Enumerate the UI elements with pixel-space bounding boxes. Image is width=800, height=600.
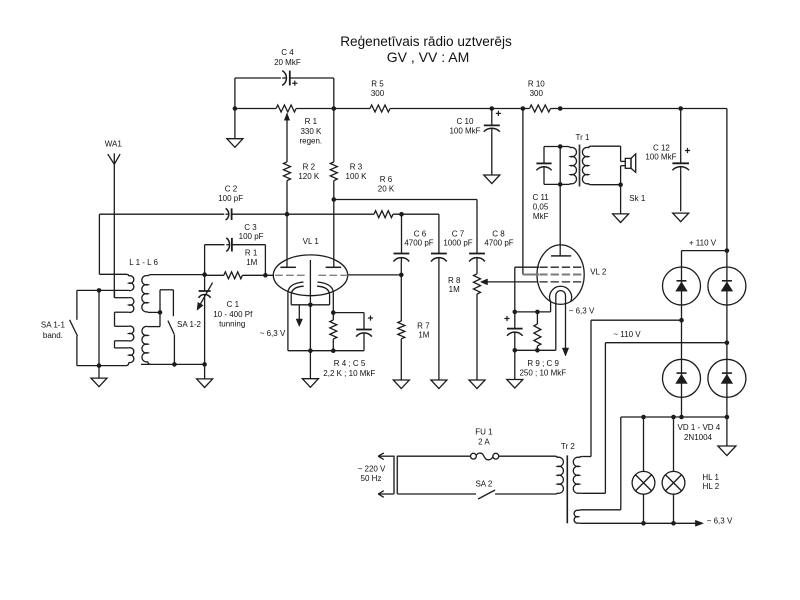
svg-text:GV , VV : AM: GV , VV : AM [387,49,469,65]
svg-text:100 pF: 100 pF [218,194,243,203]
svg-text:C 11: C 11 [532,193,549,202]
svg-text:VL 1: VL 1 [303,237,320,246]
svg-text:R 1: R 1 [305,117,318,126]
svg-text:20 K: 20 K [378,184,395,193]
svg-text:R 10: R 10 [528,80,545,89]
svg-text:R 8: R 8 [448,276,461,285]
svg-text:100 pF: 100 pF [239,232,264,241]
svg-text:330 K: 330 K [300,127,322,136]
svg-text:SA 1-2: SA 1-2 [177,320,202,329]
svg-text:R 7: R 7 [417,321,430,330]
svg-text:R 3: R 3 [350,163,363,172]
svg-text:~ 110 V: ~ 110 V [613,330,641,339]
svg-text:R 4 ; C 5: R 4 ; C 5 [334,359,366,368]
svg-text:20 MkF: 20 MkF [274,58,301,67]
svg-text:MkF: MkF [533,212,549,221]
svg-text:R 9 ; C 9: R 9 ; C 9 [527,359,559,368]
svg-text:C 3: C 3 [244,223,257,232]
svg-text:R 6: R 6 [380,175,393,184]
svg-text:WA1: WA1 [105,140,123,149]
svg-text:4700 pF: 4700 pF [404,239,433,248]
svg-text:0,05: 0,05 [533,203,549,212]
svg-text:VL 2: VL 2 [590,268,607,277]
svg-text:HL 2: HL 2 [703,482,720,491]
svg-text:C 12: C 12 [653,144,670,153]
svg-text:100 K: 100 K [346,172,368,181]
svg-text:~ 6,3 V: ~ 6,3 V [707,517,733,526]
svg-text:4700 pF: 4700 pF [484,239,513,248]
svg-text:C 1: C 1 [227,300,240,309]
svg-text:~ 6,3 V: ~ 6,3 V [569,306,595,315]
svg-text:120 K: 120 K [298,172,320,181]
svg-text:100 MkF: 100 MkF [645,153,676,162]
svg-text:Sk 1: Sk 1 [629,194,646,203]
svg-text:Tr 1: Tr 1 [576,133,590,142]
svg-text:FU 1: FU 1 [475,427,493,436]
svg-text:SA 2: SA 2 [475,480,492,489]
svg-text:300: 300 [530,89,544,98]
svg-text:Reģenetīvais rādio uztverējs: Reģenetīvais rādio uztverējs [340,34,512,49]
svg-text:~ 220 V: ~ 220 V [358,464,386,473]
svg-text:C 4: C 4 [281,48,294,57]
svg-text:R 2: R 2 [303,163,316,172]
svg-text:C 10: C 10 [457,117,474,126]
svg-text:R 5: R 5 [371,80,384,89]
svg-text:C 2: C 2 [225,185,238,194]
svg-text:HL 1: HL 1 [702,473,719,482]
svg-text:band.: band. [43,331,63,340]
svg-text:1M: 1M [418,330,429,339]
svg-text:SA 1-1: SA 1-1 [41,321,66,330]
svg-text:+ 110 V: + 110 V [689,239,717,248]
svg-text:R 1: R 1 [245,249,258,258]
svg-text:regen.: regen. [299,137,322,146]
svg-text:C 8: C 8 [492,229,505,238]
svg-text:2,2 K ; 10 MkF: 2,2 K ; 10 MkF [323,369,375,378]
svg-text:100 MkF: 100 MkF [449,126,480,135]
svg-text:~ 6,3 V: ~ 6,3 V [260,329,286,338]
svg-text:10 - 400 Pf: 10 - 400 Pf [213,310,253,319]
svg-text:1M: 1M [449,285,460,294]
svg-text:L 1 - L 6: L 1 - L 6 [129,258,158,267]
svg-text:2 A: 2 A [478,437,490,446]
svg-text:tunning: tunning [219,320,245,329]
svg-text:C 7: C 7 [452,229,465,238]
svg-text:2N1004: 2N1004 [684,433,713,442]
svg-text:1M: 1M [246,258,257,267]
svg-text:250 ; 10 MkF: 250 ; 10 MkF [519,368,566,377]
svg-text:300: 300 [371,89,385,98]
svg-text:VD 1 - VD 4: VD 1 - VD 4 [678,423,721,432]
svg-text:C 6: C 6 [414,229,427,238]
svg-text:50 Hz: 50 Hz [361,474,382,483]
svg-text:Tr 2: Tr 2 [561,442,575,451]
svg-text:1000 pF: 1000 pF [443,239,472,248]
